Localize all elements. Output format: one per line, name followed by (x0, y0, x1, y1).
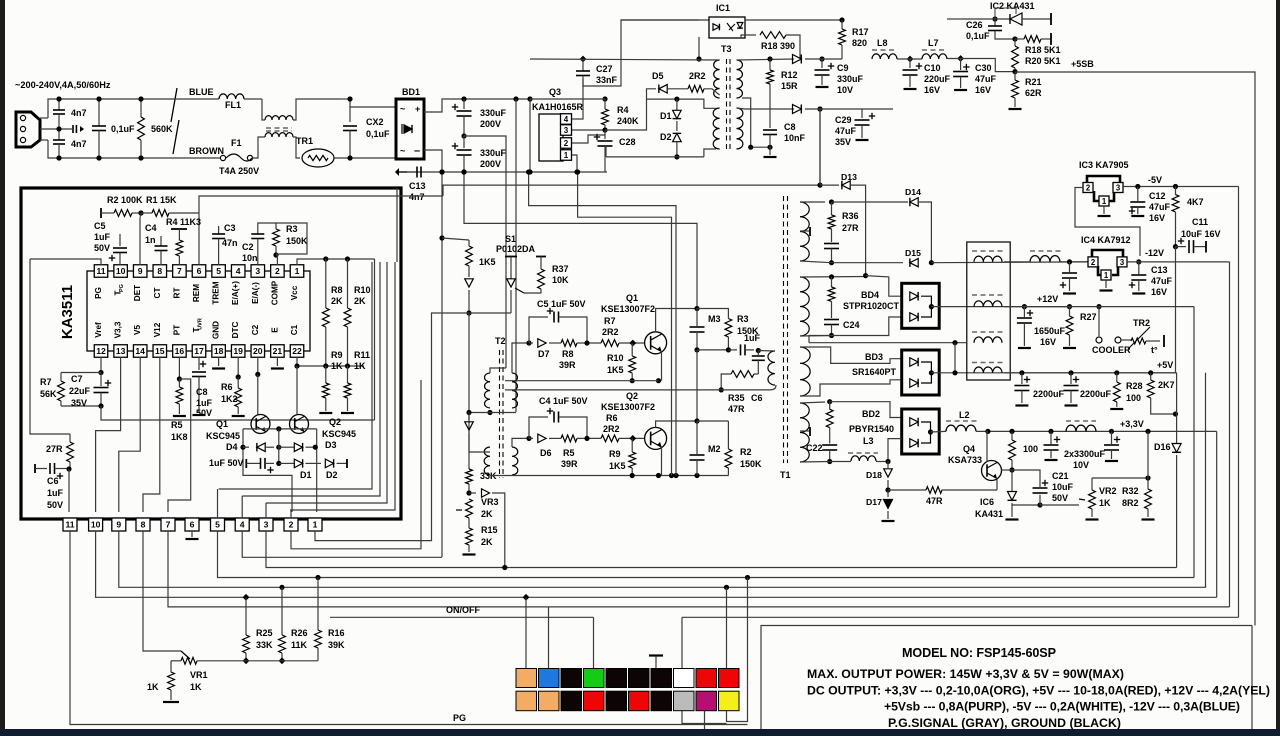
connector pin box 2 (284, 518, 298, 531)
nested route pin3 (266, 262, 387, 503)
svg-text:C28: C28 (619, 137, 636, 147)
wire IC1 right pin to R18 (741, 35, 756, 38)
wire PT pin16 stem (178, 357, 180, 378)
svg-text:VR3: VR3 (481, 497, 499, 507)
S1 gate (515, 288, 524, 293)
network right edge to pin 1 (316, 429, 318, 512)
svg-text:1uF: 1uF (94, 232, 111, 242)
node D1 top (674, 97, 679, 102)
rectifier BD4 (902, 283, 940, 328)
svg-text:BLUE: BLUE (189, 87, 214, 97)
svg-text:D15: D15 (905, 248, 921, 258)
node drive2 mid (584, 436, 589, 441)
capacitor C26 0,1uF (994, 19, 996, 26)
svg-text:50V: 50V (196, 408, 212, 418)
capacitor C13 4n7 to chassis (407, 171, 416, 173)
connector pin box 8 (136, 518, 150, 531)
node C11 (1173, 244, 1178, 249)
svg-text:R32: R32 (1122, 486, 1139, 496)
wire S2 to BD4 lower (832, 317, 902, 336)
wire Q3 drain column (527, 96, 532, 101)
svg-text:47R: 47R (926, 496, 943, 506)
svg-text:1uF: 1uF (744, 333, 761, 343)
second choke -12 line (1030, 250, 1062, 252)
resistor C22 series (829, 402, 831, 410)
capacitor C13 47uF 16V out (1138, 262, 1140, 274)
wire Vref pin12 stem (100, 357, 102, 372)
svg-text:L7: L7 (928, 38, 939, 48)
node bus b top (575, 169, 580, 174)
svg-text:+5SB: +5SB (1071, 59, 1094, 69)
pin 1 top Vcc (290, 265, 304, 278)
control board outline box (21, 188, 401, 519)
wire D1 top line (647, 99, 717, 108)
svg-text:D6: D6 (540, 448, 552, 458)
capacitor 2x3300uF a (1050, 431, 1052, 444)
node return M2 (694, 473, 699, 478)
pin 12 bottom Vref (94, 345, 108, 358)
diode D7 (529, 342, 533, 344)
rectifier BD3 (902, 350, 940, 395)
svg-text:1: 1 (1104, 271, 1109, 280)
svg-text:62R: 62R (1025, 88, 1042, 98)
svg-text:KSC945: KSC945 (206, 431, 240, 441)
wire drive bus a (529, 172, 676, 476)
svg-text:10V: 10V (837, 85, 853, 95)
node sec link b (767, 145, 772, 150)
svg-text:16V: 16V (1149, 213, 1165, 223)
wire cap midpoint to right (464, 136, 506, 368)
T1 secondary winding S1 (800, 202, 809, 261)
svg-text:-12V: -12V (1145, 248, 1164, 258)
svg-text:2: 2 (564, 139, 569, 148)
resistor R28 100 (1116, 373, 1118, 382)
node cap D1 (276, 461, 281, 466)
svg-text:D1: D1 (660, 111, 672, 121)
connector pin box 11 (63, 518, 77, 531)
node C12 (1135, 184, 1140, 189)
connector pin row2 gray PG (674, 691, 695, 711)
pin 21 bottom E (271, 345, 285, 358)
T1 secondary winding S2 (800, 277, 809, 336)
svg-text:1K5: 1K5 (479, 257, 496, 267)
svg-text:16: 16 (175, 346, 185, 356)
svg-text:~200-240V,4A,50/60Hz: ~200-240V,4A,50/60Hz (15, 80, 111, 90)
svg-text:10K: 10K (552, 275, 569, 285)
svg-text:T4A 250V: T4A 250V (219, 166, 259, 176)
svg-text:C6: C6 (751, 393, 763, 403)
node +5V d (1148, 370, 1153, 375)
svg-text:3: 3 (564, 126, 569, 135)
svg-text:2: 2 (1086, 184, 1091, 193)
svg-text:R7: R7 (40, 377, 52, 387)
capacitor C6 1uF 50V (34, 464, 36, 473)
svg-text:R21: R21 (1025, 77, 1042, 87)
resistor R7 56K (61, 372, 101, 374)
wire T3 primary return (605, 147, 607, 157)
svg-text:COOLER: COOLER (1092, 345, 1131, 355)
svg-text:PG: PG (94, 287, 103, 299)
cooler connector (1098, 307, 1100, 336)
node bus5 r16 (315, 575, 320, 580)
connector pin row1 black GND (651, 669, 672, 688)
node Vref top (98, 370, 103, 375)
svg-text:C13: C13 (409, 181, 426, 191)
wire winding return line (505, 389, 770, 391)
wire Vcc pin1 up (297, 259, 375, 265)
svg-text:22uF: 22uF (69, 386, 91, 396)
svg-text:D2: D2 (660, 132, 672, 142)
node 27R C6 (66, 466, 71, 471)
svg-text:16V: 16V (1040, 337, 1056, 347)
svg-text:E/A(+): E/A(+) (231, 281, 240, 305)
rectifier BD2 (902, 409, 940, 454)
svg-text:47uF: 47uF (1151, 276, 1173, 286)
svg-text:2K: 2K (354, 296, 366, 306)
svg-text:16V: 16V (1151, 287, 1167, 297)
svg-text:P0102DA: P0102DA (496, 244, 536, 254)
resistor 2K7 (1150, 373, 1152, 380)
wire orange drop (525, 597, 527, 668)
node Q1 base (629, 340, 636, 347)
choke winding +5 (972, 362, 1004, 364)
wire pin20 to pin22 link (237, 376, 239, 378)
svg-text:1K: 1K (147, 682, 159, 692)
svg-text:T1: T1 (780, 470, 791, 480)
node S2 bottom (829, 333, 834, 338)
wire DET pin9 stem (139, 218, 141, 265)
svg-text:4n7: 4n7 (71, 139, 87, 149)
svg-text:8R2: 8R2 (1122, 498, 1139, 508)
pin 13 bottom V3,3 (114, 345, 128, 358)
svg-text:39K: 39K (328, 640, 345, 650)
capacitor C10 220uF 16V (909, 59, 911, 68)
svg-text:R3: R3 (737, 314, 749, 324)
right page border (1276, 0, 1280, 736)
svg-text:KSE13007F2: KSE13007F2 (601, 304, 655, 314)
svg-text:2R2: 2R2 (689, 71, 706, 81)
svg-text:4: 4 (240, 520, 245, 530)
svg-text:2: 2 (289, 520, 294, 530)
wire bus pin3 sense (266, 531, 1177, 568)
wire D13 out (851, 185, 866, 276)
svg-text:39R: 39R (559, 360, 576, 370)
svg-text:10: 10 (116, 266, 126, 276)
node T2 diode tap (466, 410, 471, 415)
connector pin row2 orange +3,3V (539, 691, 560, 711)
resistor R11 1K (347, 366, 349, 383)
svg-text:R10: R10 (354, 285, 371, 295)
node D18 D17 (885, 487, 890, 492)
svg-text:D4: D4 (226, 442, 238, 452)
node +5SB (1012, 69, 1017, 74)
node R36 top (829, 199, 834, 204)
node S2 junction (863, 273, 868, 278)
svg-text:10V: 10V (1073, 460, 1089, 470)
wire standby aux down (819, 109, 821, 186)
resistor R4 11K3 on RT (171, 228, 187, 230)
wire 3v3 divider tap (1147, 431, 1149, 478)
svg-text:MODEL NO: FSP145-60SP: MODEL NO: FSP145-60SP (902, 646, 1056, 660)
node 3v3 divider (1145, 475, 1150, 480)
wire bus pin9 5v sense (119, 531, 1206, 587)
connector pin row1 blue -12V (539, 669, 560, 688)
center column (278, 429, 280, 464)
resistor R21 62R (1014, 72, 1016, 80)
wire PG line pin11 (70, 531, 748, 725)
svg-text:17: 17 (194, 346, 204, 356)
svg-text:47uF: 47uF (835, 126, 857, 136)
svg-text:9: 9 (138, 266, 143, 276)
bridge rectifier BD1 (396, 99, 424, 159)
node 3v3 c (1048, 429, 1053, 434)
svg-text:P.G.SIGNAL (GRAY), GROUND (BLA: P.G.SIGNAL (GRAY), GROUND (BLACK) (888, 716, 1121, 730)
diamond bus10 r25 (243, 594, 250, 601)
transformer T3 secondary top (737, 60, 743, 98)
svg-text:C7: C7 (71, 374, 83, 384)
capacitor C21 10uF 50V (1039, 495, 1041, 505)
svg-text:4n7: 4n7 (71, 108, 87, 118)
node D row center (276, 445, 281, 450)
connector pin box 10 (89, 518, 103, 531)
wire return rail (490, 475, 728, 477)
svg-text:D14: D14 (905, 187, 921, 197)
capacitor C11 (1178, 240, 1184, 242)
svg-text:13: 13 (116, 346, 126, 356)
node DTC (236, 374, 241, 379)
svg-text:2200uF: 2200uF (1080, 389, 1112, 399)
capacitor C5 drive (529, 317, 548, 343)
diode standby rectifier (793, 54, 802, 63)
svg-text:1K: 1K (190, 682, 202, 692)
wire Q4 base link (1001, 469, 1012, 471)
svg-text:1uF: 1uF (196, 398, 213, 408)
svg-text:R28: R28 (1126, 381, 1143, 391)
transformer T3 core (726, 59, 728, 151)
svg-text:–: – (414, 145, 420, 157)
svg-text:200V: 200V (480, 119, 501, 129)
wire DTC pin19 stem (237, 357, 239, 376)
wire bus pin8 vr1 (143, 531, 181, 651)
svg-text:ON/OFF: ON/OFF (446, 605, 480, 615)
svg-text:1K: 1K (1099, 498, 1111, 508)
svg-text:Q2: Q2 (329, 417, 341, 427)
wire diode D16 column lower (1176, 455, 1178, 568)
svg-text:R8: R8 (562, 349, 574, 359)
connector pin row1 black GND (606, 669, 627, 688)
svg-text:M3: M3 (708, 314, 721, 324)
wire C1 pin22 line (297, 357, 364, 366)
wire Q2 collector (656, 421, 697, 428)
svg-text:Q1: Q1 (626, 293, 638, 303)
svg-text:1K: 1K (354, 361, 366, 371)
node L3 out (885, 459, 890, 464)
node C1 R8 (323, 363, 328, 368)
pin 18 bottom GND (212, 345, 226, 358)
svg-text:C2: C2 (242, 242, 254, 252)
diode D1 (279, 462, 294, 464)
wire BD2 to L2 (931, 430, 947, 433)
svg-text:5: 5 (215, 520, 220, 530)
inductor L7 (922, 49, 947, 51)
resistor R20 5K1 (1014, 39, 1016, 46)
node BD4 out (929, 304, 934, 309)
wire AC middle (40, 128, 68, 130)
svg-text:2K7: 2K7 (1158, 380, 1175, 390)
svg-text:C5 1uF 50V: C5 1uF 50V (537, 299, 586, 309)
capacitor C330a 330uF 200V (461, 96, 466, 101)
resistor R8 39R (549, 342, 561, 344)
svg-text:C3: C3 (224, 223, 236, 233)
svg-text:D1: D1 (300, 470, 312, 480)
node L8 C10 (907, 56, 914, 63)
info box outline (761, 626, 1252, 730)
diode standby second (793, 104, 802, 113)
capacitor C3 (218, 226, 220, 234)
ground pin18 (218, 357, 220, 366)
wire -12V rail (1127, 261, 1230, 263)
svg-text:14: 14 (135, 346, 145, 356)
svg-text:C29: C29 (835, 115, 852, 125)
wire AC top rail (40, 117, 48, 119)
diode snubber down (465, 279, 474, 287)
wire S1 bottom lead (800, 261, 832, 263)
wire bottom rail end (606, 171, 608, 173)
wire emitter line upper (505, 380, 659, 382)
node drive1 mid (584, 340, 589, 345)
svg-text:16V: 16V (975, 85, 991, 95)
svg-text:D2: D2 (326, 470, 338, 480)
svg-text:GND: GND (212, 321, 221, 339)
resistor R2 100K (100, 208, 102, 218)
svg-text:R5: R5 (563, 448, 575, 458)
diode D2 (325, 459, 333, 468)
wire T3 sec bottom tap (737, 108, 795, 109)
node R18 R20 (1012, 36, 1017, 41)
capacitor C22 (829, 428, 831, 444)
node R2 R1 (138, 210, 143, 215)
svg-text:1K5: 1K5 (607, 365, 624, 375)
svg-text:+5V: +5V (1157, 360, 1173, 370)
left page border (0, 0, 5, 736)
node Q1 emitter (656, 378, 661, 383)
capacitor 2200uF a (1021, 373, 1023, 384)
node PT (177, 376, 182, 381)
svg-text:27R: 27R (842, 223, 859, 233)
resistor 27R (30, 259, 70, 434)
svg-text:0,1uF: 0,1uF (111, 124, 135, 134)
wire on-off line (330, 616, 594, 618)
wire R1 to REM pin (199, 196, 443, 213)
svg-text:11: 11 (96, 266, 105, 276)
wire BD1 minus output (424, 150, 442, 172)
wire E/A routing vertical (374, 259, 376, 420)
connector pin row1 white -5V (674, 669, 695, 688)
svg-text:12: 12 (96, 346, 106, 356)
node R3 bottom (726, 347, 731, 352)
node 560K top (138, 96, 143, 101)
diode T2 clamp (468, 413, 470, 421)
node M3 bottom (694, 347, 699, 352)
svg-text:560K: 560K (151, 124, 173, 134)
node D13 in (817, 183, 822, 188)
svg-text:C10: C10 (924, 63, 941, 73)
node R8 top (323, 256, 328, 261)
wire bus pin7 -12 sense (168, 531, 1230, 607)
node return Q2e (656, 473, 661, 478)
pin 8 top CT (153, 265, 167, 278)
wire green drop (593, 617, 595, 668)
resistor R6 2R2 (601, 435, 619, 442)
wire bus pin5 12v sense (218, 531, 1195, 578)
diode D6 (529, 437, 533, 439)
resistor R6 1K2 (237, 377, 239, 388)
svg-text:PBYR1540: PBYR1540 (849, 424, 894, 434)
wire PT route to box7 (168, 379, 191, 512)
thermistor TR1 (302, 149, 334, 167)
svg-text:1: 1 (564, 151, 569, 160)
resistor C24 series (831, 277, 833, 287)
svg-text:PG: PG (119, 284, 125, 292)
svg-text:~: ~ (400, 146, 405, 156)
wire standby aux link (819, 109, 821, 185)
svg-text:47R: 47R (728, 404, 745, 414)
svg-text:V5: V5 (133, 325, 142, 335)
svg-text:KA1H0165R: KA1H0165R (532, 102, 584, 112)
svg-text:150K: 150K (286, 236, 308, 246)
svg-text:KA431: KA431 (975, 509, 1003, 519)
resistor R9 1K (325, 366, 327, 383)
svg-text:4n7: 4n7 (409, 192, 425, 202)
svg-text:t°: t° (1151, 345, 1158, 355)
svg-text:CX2: CX2 (366, 117, 384, 127)
svg-text:33K: 33K (256, 640, 273, 650)
node S2 top (829, 274, 834, 279)
pin 6 top REM (192, 265, 206, 278)
T2 primary winding (485, 373, 490, 408)
wire T2 sec top lead (512, 343, 529, 373)
svg-text:50V: 50V (1052, 493, 1068, 503)
svg-text:R37: R37 (552, 264, 569, 274)
wire blue drop (548, 607, 550, 669)
svg-text:C4: C4 (145, 223, 157, 233)
resistor R5 1K8 (178, 379, 180, 387)
wire coupling to primary (758, 350, 775, 353)
T1 secondary S4 center tap (800, 430, 810, 432)
wire aux winding line (809, 342, 967, 344)
svg-text:REM: REM (192, 284, 201, 302)
wire hv feed column (441, 172, 443, 557)
resistor R12 15R (769, 59, 771, 70)
svg-text:L8: L8 (877, 38, 888, 48)
node C22 top (827, 399, 832, 404)
svg-text:2: 2 (1091, 258, 1096, 267)
pin 15 bottom V12 (153, 345, 167, 358)
wire +5V rail (1004, 372, 1177, 374)
wire 4K7 column down (1175, 247, 1177, 373)
node sec link a (748, 145, 753, 150)
connector pin row1 orange +3,3V (516, 669, 537, 688)
node BD1 out (439, 169, 444, 174)
nested route pin5 (219, 262, 372, 489)
node +5V c (1114, 370, 1119, 375)
wire divider bottom (197, 660, 318, 662)
capacitor C12 47uF 16V (1137, 187, 1139, 202)
fuse F1 (172, 157, 220, 159)
svg-text:6: 6 (190, 520, 195, 530)
resistor R9 1K5 (631, 438, 633, 452)
resistor R36 27R (831, 202, 833, 215)
